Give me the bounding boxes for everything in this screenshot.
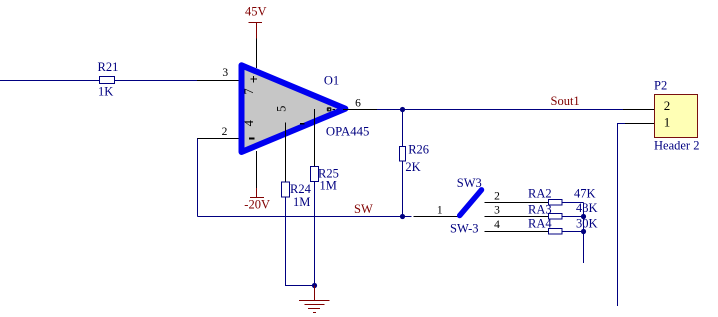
wire feedback vertical left: [197, 139, 199, 217]
svg-text:7: 7: [242, 88, 256, 94]
svg-text:1: 1: [664, 115, 671, 130]
svg-text:O1: O1: [324, 74, 339, 88]
svg-text:1M: 1M: [293, 195, 310, 209]
pin 4 line (V-): [256, 151, 258, 188]
power +45V stem and bar: [256, 22, 258, 39]
svg-text:43K: 43K: [576, 201, 598, 215]
bus wire right of RA resistors: [583, 203, 585, 264]
junction RA4 bus: [581, 229, 586, 234]
op-amp minus input mark: [249, 138, 254, 140]
junction at R26 top: [400, 107, 405, 112]
power -20V stem and bar: [256, 188, 258, 198]
wire R21 to pin 3: [115, 80, 197, 82]
svg-text:2: 2: [222, 126, 228, 138]
resistor R25: [311, 167, 319, 182]
pin number 1 (rotated dash near bottom edge): [300, 123, 305, 125]
svg-text:R21: R21: [98, 60, 119, 74]
junction RA3 bus: [581, 214, 586, 219]
wire switch pin4 to RA4: [549, 231, 584, 233]
resistor RA4: [549, 229, 563, 235]
junction at R26 bottom / SW wire: [400, 214, 405, 219]
resistor R21: [100, 77, 115, 84]
svg-text:OPA445: OPA445: [326, 125, 370, 139]
svg-text:3: 3: [222, 67, 228, 79]
svg-text:45V: 45V: [245, 5, 267, 19]
svg-text:R26: R26: [408, 143, 429, 157]
svg-text:RA2: RA2: [528, 186, 552, 200]
wire input net to R21: [0, 80, 99, 82]
wire switch pin2 to RA2: [549, 202, 584, 204]
wire P2 pin1 down: [618, 124, 626, 307]
svg-text:5: 5: [274, 106, 288, 112]
pin 2 of op-amp: [197, 138, 239, 140]
svg-text:SW3: SW3: [457, 176, 482, 190]
pin 6 output line: [343, 109, 377, 111]
resistor RA2: [549, 200, 563, 206]
svg-text:3: 3: [494, 205, 500, 217]
wire R24 bottom to ground junction: [286, 197, 315, 286]
switch pin 4 line: [485, 231, 549, 233]
resistor R26 top lead: [402, 110, 404, 147]
svg-text:4: 4: [494, 219, 500, 231]
svg-text:2: 2: [494, 190, 500, 202]
svg-text:Sout1: Sout1: [551, 94, 580, 108]
resistor R26 bottom lead: [402, 161, 404, 217]
wire switch pin3 to RA3: [549, 216, 584, 218]
connector P2 body: [655, 95, 698, 138]
resistor R24: [282, 182, 290, 197]
svg-text:Header 2: Header 2: [654, 139, 699, 153]
switch SW3 common pin: [414, 216, 460, 218]
resistor RA3: [549, 214, 563, 220]
op-amp plus input mark: [251, 78, 258, 80]
ground symbol: [314, 286, 316, 301]
pin 5 line down to R24: [285, 123, 287, 182]
svg-text:1M: 1M: [320, 178, 337, 192]
connector P2 pin 1 line: [625, 123, 655, 125]
svg-text:2K: 2K: [405, 160, 420, 174]
switch SW3 lever: [460, 190, 482, 216]
connector P2 pin 2 line: [623, 109, 655, 111]
junction at ground node: [312, 283, 317, 288]
wire SW net horizontal: [198, 216, 412, 218]
svg-text:RA4: RA4: [528, 217, 552, 231]
svg-text:SW: SW: [354, 202, 373, 216]
wire output to P2 (Sout1 net): [377, 109, 623, 111]
svg-text:SW-3: SW-3: [450, 222, 479, 236]
svg-text:1: 1: [437, 204, 443, 216]
pin 8 glyph near apex: [327, 107, 332, 111]
resistor R26: [400, 147, 406, 162]
pin 7 line (V+): [256, 38, 258, 68]
pin 1 line down to R25: [314, 109, 316, 166]
svg-text:6: 6: [355, 98, 361, 110]
svg-text:47K: 47K: [574, 186, 596, 200]
svg-text:1K: 1K: [98, 85, 113, 99]
svg-text:RA3: RA3: [528, 202, 552, 216]
wire R25 bottom to ground junction: [314, 182, 316, 286]
svg-text:P2: P2: [654, 78, 667, 92]
switch pin 2 line: [485, 202, 549, 204]
svg-text:2: 2: [664, 98, 671, 113]
switch pin 3 line: [485, 216, 549, 218]
svg-text:4: 4: [242, 119, 256, 126]
svg-text:30K: 30K: [576, 216, 598, 230]
svg-text:-20V: -20V: [244, 197, 270, 211]
op-amp O1 body: [242, 65, 346, 152]
pin 3 of op-amp: [197, 80, 239, 82]
